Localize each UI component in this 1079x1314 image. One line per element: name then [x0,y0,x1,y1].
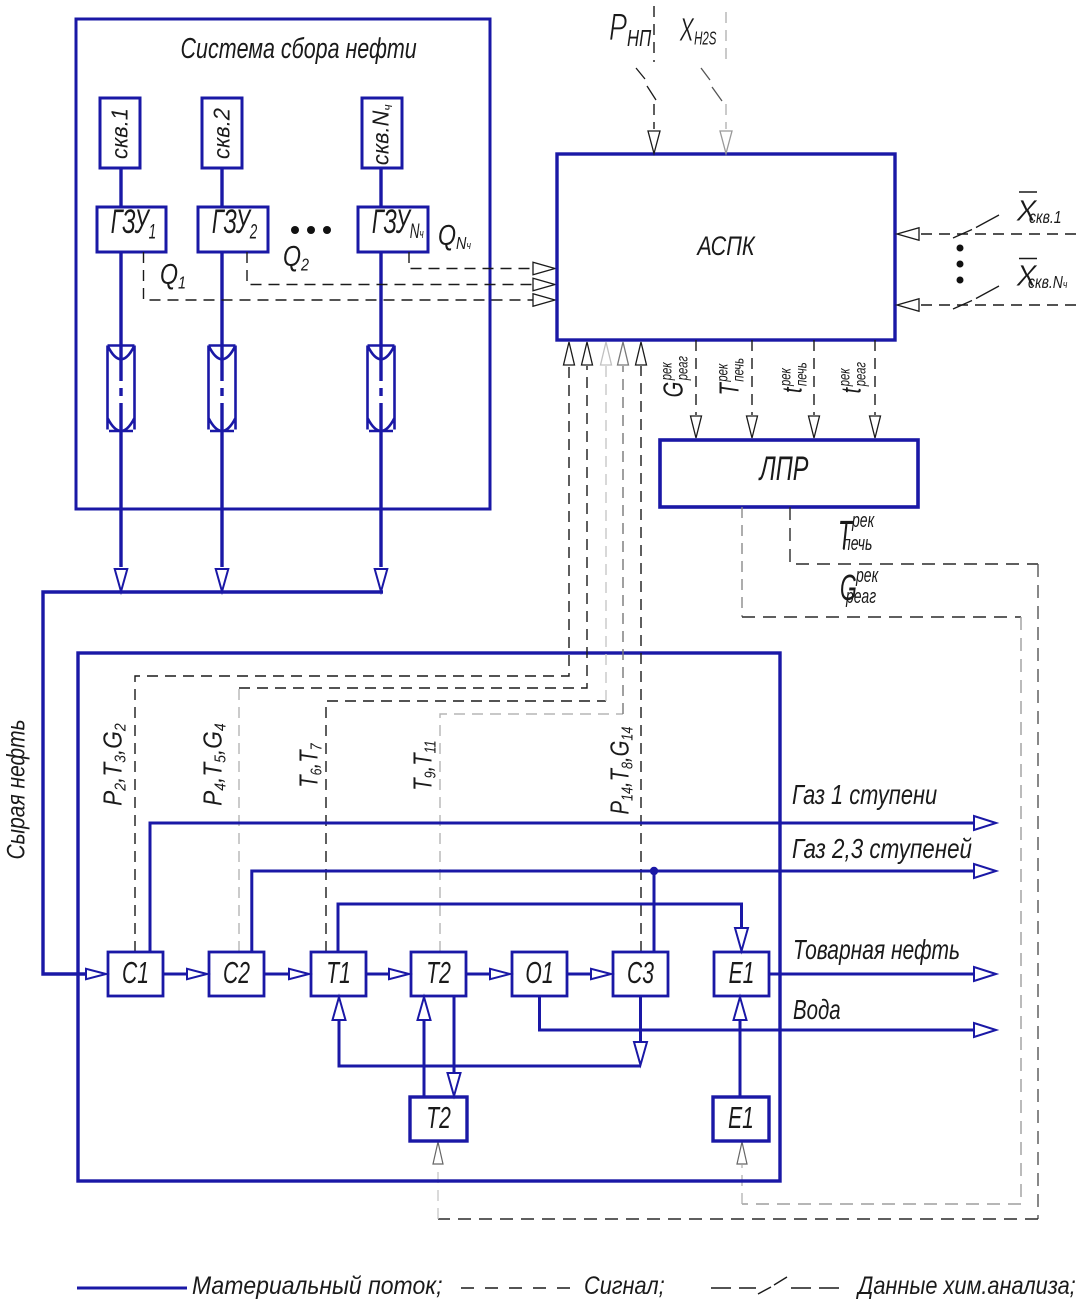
box: well skv.N [362,98,402,168]
label: GZU2 [212,205,254,242]
box: T2 [411,952,466,996]
label: tank E1 [722,1102,760,1133]
label: GZU1 [111,205,153,242]
label: P2 T3 G2 rotated [99,712,128,816]
box: T1 [311,952,366,996]
label: crude oil rotated [5,734,30,860]
box: O1 [512,952,567,996]
wire: C2 signal to ASPK [239,366,587,688]
break mark on x_skv.N line [953,286,999,309]
arrow: into C3 [591,969,611,979]
label: title system [181,35,412,64]
label: T6 T7 rotated [295,719,324,813]
pipe symbol 2 [209,346,236,432]
label: C2 [218,957,255,988]
wire: x_skv.N chem data line [918,304,1076,306]
wire: T_pech rec right riser [1037,564,1039,1219]
label: x_skv.N [1017,253,1079,298]
wire: furnace T2 return up [423,1018,426,1097]
arrow: into C2 [187,969,207,979]
arrow: G_reag rec into LPR [691,416,702,438]
wire: C2 to T1 [264,973,289,976]
wire: well 2 to GZU2 [220,168,223,207]
arrow: Q2 into ASPK [533,278,555,291]
arrow: t_pech rec into LPR [809,416,820,438]
box: GZU1 [97,207,166,252]
wire: well N to GZU N [379,168,382,207]
box: E1 [714,952,769,996]
arrow: t_reag rec into LPR [870,416,881,438]
overline for x_skv.1 [1019,191,1037,193]
label: x_H2S [680,5,716,49]
legend: chem data sample line [711,1287,839,1289]
arrow: recycle into T1 bottom [333,997,346,1020]
arrow: C3 signal into ASPK [636,342,647,365]
arrow: into T2 [389,969,409,979]
arrow: C3 recycle down to header [634,1042,647,1065]
arrow: water out [974,1023,996,1037]
box: LPR [660,440,918,507]
arrow: well 1 flow down [115,569,128,592]
label: P14 T8 G14 rotated [606,724,635,818]
label: C1 [117,957,154,988]
wire: T1 to T2 [366,973,389,976]
wire: T_pech rec riser into furnace T2 [437,1165,439,1219]
wire: C1 signal to ASPK [135,366,569,952]
arrow: T_pech rec into furnace T2 [433,1142,443,1164]
wire: C3 signal to ASPK [640,366,642,952]
label: T_pech rec under LPR [838,513,888,558]
wire: GZU1 down through pipe [119,252,122,567]
arrow: T_pech rec into LPR [747,416,758,438]
label: legend chem data [858,1274,1076,1299]
arrow: T2 signal into ASPK [618,342,629,365]
wire: x_H2S chem data line [725,12,727,129]
label: T_pech rec rotated [715,333,746,419]
wire: well 1 to GZU1 [119,168,122,207]
wire: T_pech rec bottom run to furnace [438,1218,1038,1220]
wire: tank E1 up to E1 [739,1018,742,1097]
wire: GZU2 down through pipe [220,252,223,567]
label: E1 [723,957,760,988]
dots between GZU2 and GZU N [291,226,331,234]
arrow: Q1 into ASPK [533,294,555,307]
label: skv.2 [211,77,234,191]
arrow: QN into ASPK [533,262,555,275]
wire: P_NP chem data line [653,6,655,129]
arrow: x_skv.N into ASPK right [897,299,919,312]
label: marketable oil [793,936,960,964]
label: G_reag rec under LPR [840,567,890,612]
label: legend material flow [192,1274,442,1299]
wire: gas stage 2,3 from C2 [252,871,974,952]
wire: G_reag rec from LPR down [741,507,743,617]
arrow: marketable oil out [974,967,996,981]
wire: gas stage 1 from C1 [150,823,974,952]
wire: Q1 signal from GZU1 [144,252,534,300]
box: GZU2 [198,207,268,252]
box: C3 [613,952,668,996]
arrow: C1 signal into ASPK [564,342,575,365]
arrow: T1 signal into ASPK [601,342,612,365]
label: QN [438,222,471,252]
wire: G_reag rec right riser [1020,617,1022,1204]
arrow: P_NP into ASPK top [648,131,660,154]
wire: T_pech rec from LPR to furnace T2 [790,507,1038,564]
box: C1 [108,952,163,996]
wire: gas from C3 to gas 2,3 header [653,871,656,952]
label: x_skv.1 [1017,188,1077,233]
wire: T1 signal riser (light grey) [605,366,607,701]
wire: T_pech rec from ASPK to LPR [751,340,753,415]
box: separation plant [78,653,780,1181]
box: tank E1 [713,1097,769,1141]
box: ASPK [557,154,895,340]
arrow: crude oil into C1 [86,969,106,979]
label: P_NP [609,9,651,50]
wire: T1 signal lower [326,701,606,952]
label: t_pech rec rotated [778,334,809,420]
arrow: into T1 [289,969,309,979]
arrow: into O1 [490,969,510,979]
label: ASPK [646,233,806,260]
wire: x_skv.1 chem data line [918,233,1076,235]
pipe symbol 1 [108,346,135,432]
arrow: tank E1 into E1 [734,997,747,1020]
label: T2 [420,957,457,988]
arrow: well N flow down [375,569,388,592]
arrow: x_skv.1 into ASPK right [897,228,919,241]
wire: G_reag rec top run [742,616,1021,618]
box: furnace T2 [410,1097,467,1141]
arrow: gas stage 1 out [974,816,996,830]
wire: crude oil header [43,592,383,974]
label: O1 [521,957,558,988]
arrow: furnace return into T2 [418,997,431,1020]
box: C2 [209,952,264,996]
pipe symbol 3 [368,346,395,432]
label: gas stage 1 [792,781,937,809]
label: LPR [715,452,853,486]
wire: T2 to O1 [466,973,490,976]
arrow: x_H2S into ASPK top [720,131,732,154]
arrow: well 2 flow down [216,569,229,592]
label: T1 [320,957,357,988]
label: G_reag rec rotated [659,333,690,419]
junction dot on gas 2,3 line [650,867,658,875]
break mark on P_NP line [636,68,656,100]
wire: G_reag rec from ASPK to LPR [695,340,697,415]
wire: T2 signal lower (grey) [440,714,623,952]
label: Q1 [160,261,186,291]
wire: GZU N down through pipe [379,252,382,567]
box: well skv.1 [100,98,140,168]
arrow: into furnace T2 [448,1073,461,1096]
wire: water from O1 [540,996,975,1030]
label: T9 T11 rotated [409,719,438,813]
wire: C1 to C2 [163,973,187,976]
label: t_reag rec rotated [837,334,868,420]
label: P4 T5 G4 rotated [199,712,228,816]
legend: chem data break mark [758,1277,787,1294]
wire: recycle header to T1 [339,1018,641,1066]
wire: QN signal from GZU N [409,252,533,269]
label: GZU N [372,205,414,242]
arrow: into E1 top [735,928,748,951]
label: C3 [622,957,659,988]
overline for x_skv.N [1019,258,1037,260]
wire: C3 recycle down [639,996,642,1043]
box: GZU N [358,207,428,252]
dots between x_skv lines [957,245,964,284]
arrow: G_reag rec into E1 tank [737,1142,747,1164]
break mark on x_skv.1 line [953,215,999,238]
wire: T1 overhead to E1 [338,904,742,952]
arrow: gas stage 2,3 out [974,864,996,878]
label: skv.1 [109,77,132,191]
wire: Q2 signal from GZU2 [247,252,533,285]
wire: T2 signal riser [622,366,624,714]
label: water [793,996,841,1024]
legend: signal sample line [461,1287,570,1289]
wire: marketable oil from E1 [769,973,974,976]
label: furnace T2 [419,1102,458,1133]
wire: t_pech rec from ASPK to LPR [813,340,815,415]
legend: material flow sample line [77,1287,187,1290]
wire: O1 to C3 [567,973,591,976]
box: well skv.2 [202,98,242,168]
wire: T2 down to furnace [453,996,456,1074]
label: Q2 [283,243,309,273]
wire: G_reag rec riser into E1 tank [741,1165,743,1204]
break mark on x_H2S line [701,68,722,101]
box: oil gathering system (Система сбора нефти) [76,19,490,509]
label: skv.N [369,78,394,192]
label: legend signal [584,1274,665,1299]
wire: t_reag rec from ASPK to LPR [874,340,876,415]
wire: C2 signal riser (grey) [238,688,240,952]
wire: G_reag rec bottom run to E1 tank [742,1203,1021,1205]
label: gas stage 2,3 [792,835,972,863]
arrow: C2 signal into ASPK [582,342,593,365]
